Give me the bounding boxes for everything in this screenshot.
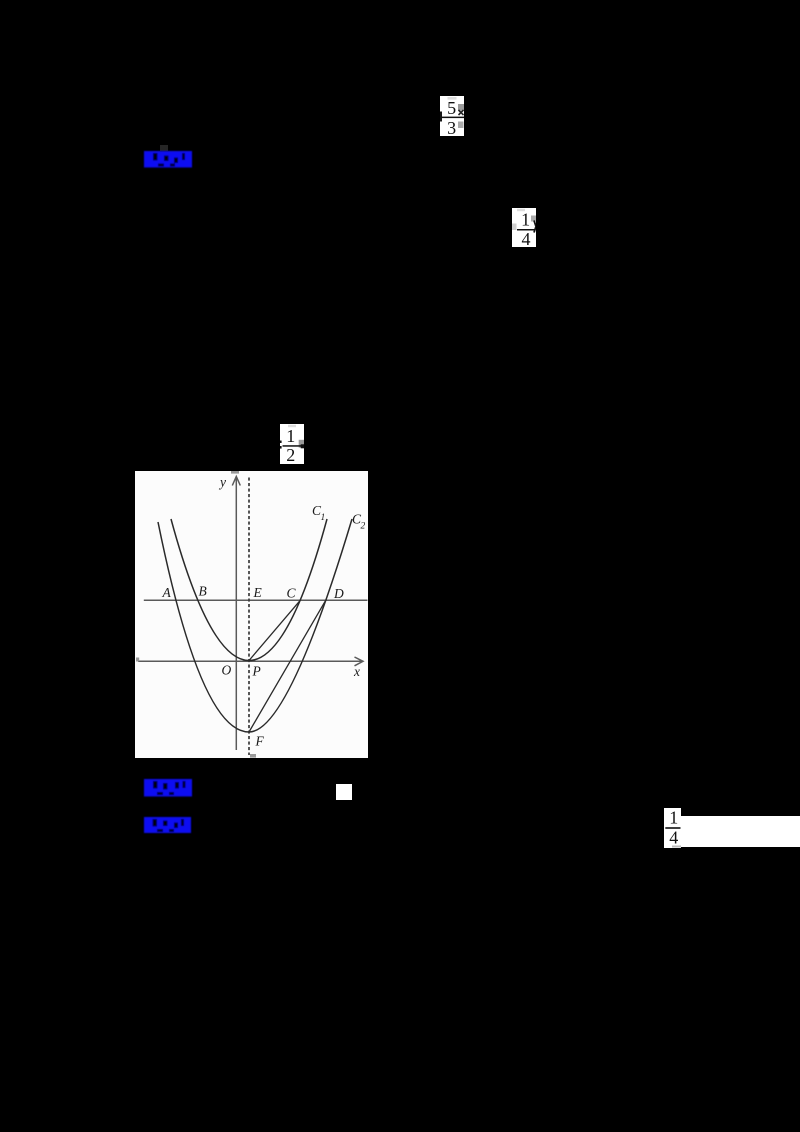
y-axis (232, 477, 240, 751)
dashed axis of symmetry (248, 478, 250, 756)
formula image: fraction 1/4 with x (512, 208, 536, 247)
chord F-D (249, 600, 326, 732)
svg-text:E: E (253, 585, 263, 600)
svg-text:1: 1 (521, 210, 530, 230)
svg-text:C: C (287, 586, 297, 601)
blue label 1 (160, 145, 168, 151)
svg-text:1: 1 (286, 426, 295, 446)
blue label 2 (144, 779, 192, 797)
labels (162, 475, 366, 749)
gray mark at x-axis left end (136, 658, 139, 662)
chord P-C (249, 600, 300, 660)
svg-text:F: F (255, 734, 265, 749)
svg-text:D: D (333, 586, 344, 601)
formula image: fraction 5/3 (440, 96, 464, 136)
svg-text:3: 3 (447, 118, 456, 136)
svg-text:P: P (252, 664, 261, 679)
svg-text:A: A (162, 585, 172, 600)
svg-text:2: 2 (361, 522, 366, 532)
svg-text:B: B (199, 584, 207, 599)
parabola C1 (171, 519, 327, 661)
svg-text:5: 5 (447, 98, 456, 118)
formula image: fraction 1/2 with = (280, 424, 304, 464)
svg-text:4: 4 (522, 229, 531, 247)
graph figure (white box) (135, 471, 368, 758)
svg-text:1: 1 (321, 513, 326, 523)
small white square (blank formula image) (336, 784, 352, 800)
svg-text:y: y (218, 475, 226, 490)
svg-text:x: x (353, 664, 360, 679)
svg-text:O: O (222, 663, 232, 678)
x-axis (138, 657, 363, 666)
gray tick top (231, 471, 239, 474)
svg-text:4: 4 (669, 827, 678, 847)
white band (formula image continues off page) (681, 816, 800, 847)
svg-text:1: 1 (669, 808, 678, 828)
svg-text:2: 2 (286, 445, 295, 464)
line through A B E C D (144, 599, 368, 601)
parabola C2 (158, 519, 352, 732)
blue label 3 (144, 817, 191, 833)
formula image: fraction 1/4 (bottom right) (664, 808, 681, 849)
